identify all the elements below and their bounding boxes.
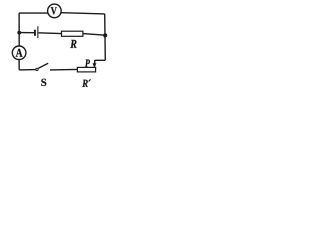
wire bottom-left horizontal (19, 69, 35, 71)
switch S lever (38, 63, 48, 68)
node junction right (103, 33, 107, 37)
voltmeter label V (51, 7, 57, 14)
ammeter U2 circle (12, 46, 26, 60)
rheostat R' box (77, 67, 95, 72)
wire left rail vertical (18, 13, 20, 46)
wire top-left horizontal (19, 12, 47, 14)
wire battery to resistor (38, 32, 61, 35)
label S (41, 79, 46, 86)
voltmeter U1 circle (48, 4, 62, 18)
node junction left (17, 31, 21, 35)
label R' (82, 79, 91, 87)
label R (70, 40, 76, 48)
wire top-right horizontal (61, 13, 104, 14)
resistor R box (62, 31, 83, 36)
wire right rail vertical (104, 14, 107, 60)
wire bottom-left vertical (18, 60, 20, 70)
battery BT1 short thick plate (34, 30, 36, 36)
switch S pivot (36, 68, 38, 70)
wire bottom-right horizontal (50, 68, 77, 71)
battery BT1 long thin plate (37, 26, 38, 38)
wire wiper feed horizontal (95, 59, 106, 61)
ammeter label A (16, 49, 23, 57)
label P (85, 60, 90, 68)
wire resistor to right rail (83, 34, 105, 36)
wire middle to battery (19, 32, 34, 34)
wiper arrow P of rheostat (93, 60, 97, 68)
